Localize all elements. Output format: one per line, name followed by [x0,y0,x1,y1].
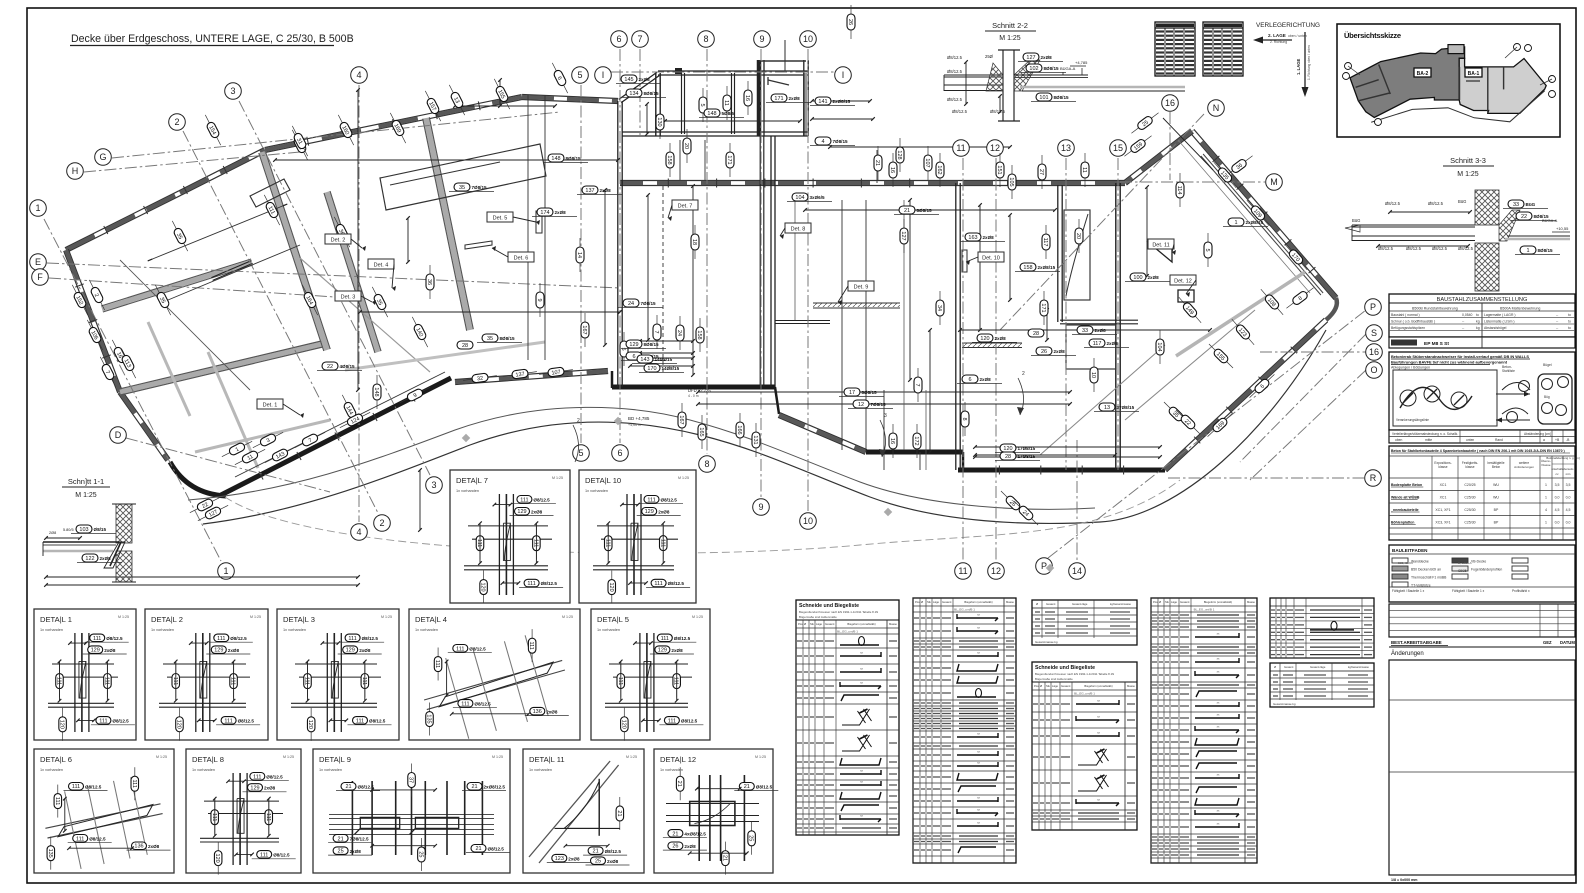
svg-text:Det. 9: Det. 9 [854,285,869,291]
svg-text:129: 129 [346,648,355,654]
svg-text:11: 11 [1081,167,1087,173]
svg-text:2Ø8: 2Ø8 [49,531,56,535]
svg-text:BL_EG_unt/B 1: BL_EG_unt/B 1 [837,630,858,634]
svg-text:M 1:25: M 1:25 [755,755,766,759]
svg-text:114: 114 [1176,186,1182,195]
svg-text:Biegerollendurchmesser nach EN: Biegerollendurchmesser nach EN 1992-1-1/… [799,610,878,614]
svg-text:+4,00 m: +4,00 m [628,423,641,427]
svg-text:G: G [99,152,106,162]
svg-text:M 1:25: M 1:25 [692,615,703,619]
svg-text:137: 137 [585,188,594,194]
svg-text:111: 111 [103,677,109,685]
svg-text:111: 111 [131,780,137,788]
svg-text:Ø8/12.5: Ø8/12.5 [469,647,486,652]
svg-text:Det. 12: Det. 12 [1174,279,1192,285]
svg-text:111: 111 [93,636,101,642]
svg-text:Bauführungen BAVFE tief nicht: Bauführungen BAVFE tief nicht zus wähnen… [1391,360,1508,365]
svg-text:148: 148 [551,156,560,162]
svg-text:34: 34 [936,305,942,311]
svg-text:2xØ8/15: 2xØ8/15 [833,99,851,104]
svg-text:1: 1 [35,203,40,213]
svg-text:2xØ8: 2xØ8 [555,210,567,215]
svg-text:111: 111 [647,497,655,503]
svg-text:134: 134 [629,91,638,97]
svg-text:20: 20 [1075,233,1081,239]
svg-text:2xØ8: 2xØ8 [684,844,696,849]
grid circles [611,31,628,48]
svg-text:BÜGA-A: BÜGA-A [1542,218,1558,223]
svg-text:I: I [602,70,605,80]
svg-text:9: 9 [759,34,764,44]
svg-text:VB-Decke: VB-Decke [1471,560,1486,564]
svg-text:S: S [1371,328,1377,338]
svg-text:9: 9 [758,502,763,512]
svg-text:Ø8/12.5: Ø8/12.5 [1432,246,1448,251]
svg-text:min: min [1566,472,1571,476]
svg-text:2: 2 [174,117,179,127]
annotation pills [86,278,109,312]
svg-text:7Ø8/15: 7Ø8/15 [641,301,657,306]
svg-text:Rand: Rand [1495,438,1503,442]
floor plan exterior walls [67,195,181,252]
svg-text:2xØ8: 2xØ8 [1107,341,1119,346]
svg-text:BüG: BüG [1352,218,1360,223]
bar schedule tables [796,600,899,835]
svg-text:14: 14 [576,252,582,258]
svg-text:I: I [842,70,845,80]
svg-text:5.80/5: 5.80/5 [63,528,74,532]
svg-text:28: 28 [1033,331,1039,337]
svg-text:Gesamt: Gesamt [1046,602,1056,606]
svg-text:14: 14 [1072,566,1082,576]
svg-text:BEST.ARBEITSABGABE: BEST.ARBEITSABGABE [1391,640,1442,645]
svg-text:Ø8/12.5: Ø8/12.5 [89,837,106,842]
svg-text:1x vorhanden: 1x vorhanden [660,768,683,772]
svg-text:Stahlliste: Stahlliste [1502,369,1515,373]
svg-text:Masse: Masse [1247,600,1255,604]
svg-text:M 1:25: M 1:25 [492,755,503,759]
svg-text:8Ø8/15: 8Ø8/15 [644,91,660,96]
svg-text:12: 12 [990,143,1000,153]
svg-text:Gesamt-läge: Gesamt-läge [1072,602,1088,606]
svg-text:M: M [1270,177,1278,187]
svg-text:14Ø8/15: 14Ø8/15 [655,357,673,362]
svg-text:Bodenplatte Beton: Bodenplatte Beton [1391,483,1422,487]
svg-text:162: 162 [936,165,942,174]
svg-text:Gesamtmasse kg: Gesamtmasse kg [1035,640,1058,644]
svg-text:Ø: Ø [921,600,923,604]
svg-text:21: 21 [471,784,477,790]
svg-text:37Ø8/15: 37Ø8/15 [1117,405,1135,410]
svg-text:129: 129 [250,785,259,791]
svg-text:171: 171 [774,96,783,102]
svg-text:mitte: mitte [1425,438,1432,442]
svg-text:Wanddecke: Wanddecke [1411,560,1429,564]
svg-text:130: 130 [656,117,662,126]
bottom slab edge curves [203,330,1326,524]
svg-text:Gesamt: Gesamt [1061,684,1071,688]
svg-text:4 - 0 m: 4 - 0 m [688,394,699,398]
svg-text:1x vorhanden: 1x vorhanden [151,628,174,632]
svg-text:141: 141 [818,99,827,105]
svg-text:Ø8/12.5: Ø8/12.5 [605,849,622,854]
svg-text:DETA|L 2: DETA|L 2 [151,615,183,624]
svg-text:111: 111 [668,718,676,724]
svg-text:Schneide und Biegeliste: Schneide und Biegeliste [799,603,859,609]
svg-text:Det. 5: Det. 5 [493,216,508,222]
svg-text:21: 21 [616,810,622,816]
svg-text:10: 10 [803,34,813,44]
svg-text:Böhlenplatten: Böhlenplatten [1391,521,1414,525]
svg-text:135: 135 [426,714,432,723]
svg-text:2xØ8: 2xØ8 [980,377,992,382]
svg-text:7: 7 [914,383,920,386]
svg-text:Ø8/12.5: Ø8/12.5 [1406,246,1422,251]
svg-text:Ø8/12.5: Ø8/12.5 [1458,246,1474,251]
svg-text:17: 17 [849,390,855,396]
svg-text:oberseits: oberseits [1563,467,1575,471]
svg-text:Läge: Läge [1171,600,1177,604]
title block: small dim table [1389,430,1575,443]
svg-text:8Ø8/15: 8Ø8/15 [566,156,582,161]
svg-text:21: 21 [874,160,880,166]
svg-text:111: 111 [659,539,665,547]
svg-text:Pos: Pos [798,622,803,626]
svg-text:7Ø8/12.5: 7Ø8/12.5 [350,837,369,842]
svg-text:0,0: 0,0 [1566,521,1571,525]
svg-text:120: 120 [175,720,181,729]
svg-text:VERLEGERICHTUNG: VERLEGERICHTUNG [1256,22,1320,29]
svg-text:167: 167 [678,415,684,424]
svg-text:171: 171 [726,155,732,164]
svg-text:111: 111 [604,539,610,547]
svg-text:33: 33 [1513,202,1519,208]
svg-text:Ø8/12.5: Ø8/12.5 [238,719,255,724]
svg-text:6: 6 [632,354,635,360]
svg-text:1: 1 [1234,220,1237,226]
svg-text:2xØ8: 2xØ8 [607,859,619,864]
svg-text:Ø8/12.5: Ø8/12.5 [112,719,129,724]
svg-text:XC3, XF1: XC3, XF1 [1435,521,1450,525]
svg-text:36: 36 [426,279,432,285]
svg-text:5Ø8/5: 5Ø8/5 [722,111,735,116]
svg-text:8: 8 [703,34,708,44]
svg-text:172: 172 [913,436,919,445]
svg-text:DETA|L 9: DETA|L 9 [319,755,351,764]
svg-text:1x vorhanden: 1x vorhanden [585,489,608,493]
svg-text:37: 37 [408,777,414,783]
svg-text:5: 5 [699,103,705,106]
svg-text:B50 Decken BOI an: B50 Decken BOI an [1411,568,1441,572]
svg-text:Decke über Erdgeschoss, UNTERE: Decke über Erdgeschoss, UNTERE LAGE, C 2… [71,33,354,45]
svg-text:Pos: Pos [915,600,920,604]
title block: tall empty panel [1389,660,1575,875]
det5 det6 pieces [536,211,542,233]
svg-text:Ø8/12.5: Ø8/12.5 [947,97,963,102]
svg-text:DETA|L 7: DETA|L 7 [456,476,488,485]
svg-text:2xØ8/12.5: 2xØ8/12.5 [484,784,506,789]
svg-text:Ø8/12.5: Ø8/12.5 [362,636,379,641]
svg-text:127: 127 [900,231,906,240]
svg-text:1x vorhanden: 1x vorhanden [319,768,342,772]
svg-text:2xØ8: 2xØ8 [546,709,558,714]
svg-text:2xØ8: 2xØ8 [658,509,670,514]
svg-text:2xØ8: 2xØ8 [1041,55,1053,60]
svg-text:C8/25: C8/25 [1458,569,1467,573]
svg-text:DETA|L 12: DETA|L 12 [660,755,696,764]
svg-text:111: 111 [527,581,535,587]
svg-text:111: 111 [434,660,440,668]
svg-text:120: 120 [620,720,626,729]
svg-text:163: 163 [968,235,977,241]
svg-text:1x vorhanden: 1x vorhanden [456,489,479,493]
svg-text:Gesamt: Gesamt [1284,665,1294,669]
svg-text:122: 122 [85,556,94,562]
svg-text:DETA|L 4: DETA|L 4 [415,615,447,624]
svg-text:1: 1 [223,566,228,576]
svg-text:M 1:25: M 1:25 [1457,171,1479,178]
svg-text:Läge: Läge [816,622,822,626]
title block: baustahl table [1389,294,1575,337]
svg-text:4xØ8/12.5: 4xØ8/12.5 [684,832,706,837]
svg-text:170: 170 [647,366,656,372]
svg-text:111: 111 [532,539,538,547]
svg-text:25: 25 [748,835,754,841]
svg-text:148: 148 [707,111,716,117]
svg-text:Ø8/12.5: Ø8/12.5 [533,498,550,503]
svg-text:DETA|L 6: DETA|L 6 [40,755,72,764]
svg-text:2xØ8: 2xØ8 [228,648,240,653]
svg-text:8Ø8/15: 8Ø8/15 [1054,95,1070,100]
svg-text:C20/25: C20/25 [1464,483,1475,487]
svg-text:C25/30: C25/30 [1464,521,1475,525]
svg-text:2: 2 [577,418,580,424]
svg-text:BA-1: BA-1 [1468,71,1480,77]
svg-text:Ø8/12.5: Ø8/12.5 [668,581,685,586]
svg-text:WU: WU [1493,483,1499,487]
svg-text:Profilstärkt x: Profilstärkt x [1512,589,1530,593]
svg-text:27: 27 [1038,169,1044,175]
svg-text:4Ø8/15: 4Ø8/15 [340,364,356,369]
svg-text:Gesamtmasse kg: Gesamtmasse kg [1273,702,1296,706]
svg-text:Det. 6: Det. 6 [514,256,529,262]
svg-text:2xØ8: 2xØ8 [1095,328,1107,333]
svg-text:XC1: XC1 [1440,496,1447,500]
svg-text:3,5: 3,5 [1555,483,1560,487]
svg-text:Schneide und Biegeliste: Schneide und Biegeliste [1035,665,1095,671]
svg-text:Det. 8: Det. 8 [791,227,806,233]
svg-text:--: -- [1462,326,1464,330]
svg-text:16: 16 [744,95,750,101]
svg-text:Ø8/12.5: Ø8/12.5 [85,784,102,789]
svg-text:Ø: Ø [1036,602,1038,606]
svg-text:5: 5 [577,70,582,80]
svg-text:2xØ8/15: 2xØ8/15 [1038,265,1056,270]
svg-text:BL_EG_unt/B 1: BL_EG_unt/B 1 [1194,608,1215,612]
svg-text:107: 107 [924,158,930,167]
svg-text:5: 5 [1204,248,1210,251]
tall middle block [617,101,619,387]
svg-text:2. LAGE: 2. LAGE [1268,33,1286,38]
svg-text:10: 10 [803,516,813,526]
svg-text:Ø8/12.5: Ø8/12.5 [1428,201,1444,206]
svg-text:101: 101 [1039,95,1048,101]
svg-text:B500B Rundstahlbewehrung: B500B Rundstahlbewehrung [1412,307,1458,311]
svg-text:Listenmatte ( LISm ): Listenmatte ( LISm ) [1484,320,1515,324]
svg-text:+B: +B [1555,438,1560,442]
svg-text:111: 111 [456,646,464,652]
svg-text:C25/30: C25/30 [1464,496,1475,500]
svg-text:111: 111 [260,852,268,858]
svg-text:105: 105 [1008,177,1014,186]
svg-text:3: 3 [884,413,887,419]
svg-text:XC1: XC1 [1440,483,1447,487]
svg-text:Büg: Büg [1544,395,1550,399]
svg-text:Ø: Ø [804,622,806,626]
svg-text:DETA|L 10: DETA|L 10 [585,476,621,485]
svg-text:Gesamt: Gesamt [942,600,952,604]
svg-text:_nnenbaubeteile: _nnenbaubeteile [1390,508,1419,512]
svg-text:21: 21 [904,208,910,214]
svg-text:M 1:25: M 1:25 [999,35,1021,42]
svg-text:158: 158 [696,330,702,339]
svg-text:BÜGA-A: BÜGA-A [1060,66,1076,71]
svg-text:4: 4 [1545,508,1547,512]
svg-text:kg/Gesamtmasse: kg/Gesamtmasse [1348,665,1369,669]
svg-text:Wände alt WÜBB: Wände alt WÜBB [1391,496,1420,500]
svg-text:24: 24 [676,330,682,336]
svg-text:B500A Mattenbewehrung: B500A Mattenbewehrung [1500,307,1540,311]
svg-text:111: 111 [356,718,364,724]
svg-text:Ø8/12.5: Ø8/12.5 [661,498,678,503]
svg-text:123: 123 [555,856,564,862]
svg-text:F: F [37,272,43,282]
svg-text:1x vorhanden: 1x vorhanden [40,628,63,632]
svg-text:1x vorhanden: 1x vorhanden [192,768,215,772]
svg-text:Ø8/12.5: Ø8/12.5 [358,784,375,789]
svg-text:13: 13 [1104,405,1110,411]
interior walls middle-right [955,183,957,470]
svg-text:Ø: Ø [1159,600,1161,604]
svg-text:Biegeform (unmaßstäb): Biegeform (unmaßstäb) [1204,600,1232,604]
svg-text:2xØ8: 2xØ8 [359,648,371,653]
svg-text:16: 16 [1369,347,1379,357]
svg-text:135: 135 [47,849,53,858]
svg-text:M 1:25: M 1:25 [381,615,392,619]
svg-text:Abständerung [cm]: Abständerung [cm] [1524,432,1551,436]
svg-text:120: 120 [980,336,989,342]
svg-text:111: 111 [172,677,178,685]
svg-text:Ø8/12.5: Ø8/12.5 [273,853,290,858]
svg-text:Det. 4: Det. 4 [374,263,389,269]
svg-text:Verankerungslängslinie: Verankerungslängslinie [1396,418,1429,422]
svg-text:143: 143 [640,357,649,363]
svg-text:BL_EG_unt/B 1: BL_EG_unt/B 1 [1074,692,1095,696]
svg-text:148: 148 [373,387,379,396]
svg-text:14Ø8/15: 14Ø8/15 [662,366,680,371]
svg-text:Det. 7: Det. 7 [678,204,693,210]
svg-text:3: 3 [431,480,436,490]
svg-text:104: 104 [795,195,804,201]
svg-text:Beton für Stahlbetonbauteile 4: Beton für Stahlbetonbauteile 4 Spannbeto… [1391,449,1565,453]
svg-text:Ø8/12.5: Ø8/12.5 [1378,246,1394,251]
svg-text:8Ø8/15: 8Ø8/15 [500,336,516,341]
svg-text:2: 2 [379,518,384,528]
svg-text:17Ø8/15: 17Ø8/15 [1018,446,1036,451]
svg-text:7Ø8/15: 7Ø8/15 [472,185,488,190]
svg-text:151: 151 [996,165,1002,174]
svg-text:Pos: Pos [1034,684,1039,688]
title block: EP row [1389,337,1575,348]
svg-text:17Ø8/15: 17Ø8/15 [1018,454,1036,459]
svg-text:kg: kg [1476,320,1480,324]
svg-text:Schn]tt 1-1: Schn]tt 1-1 [68,477,104,486]
svg-text:--: -- [1556,326,1558,330]
svg-text:111: 111 [461,701,469,707]
svg-text:Det. 3: Det. 3 [341,295,356,301]
svg-text:21: 21 [672,831,678,837]
svg-text:20: 20 [683,143,689,149]
svg-text:111: 111 [230,677,236,685]
det labels [257,399,283,409]
svg-text:129: 129 [91,648,100,654]
svg-text:6: 6 [617,448,622,458]
svg-text:120: 120 [59,720,65,729]
svg-text:Masse: Masse [889,622,897,626]
svg-text:120: 120 [1003,446,1012,452]
svg-text:unterhalb: unterhalb [1551,467,1563,471]
svg-text:2xØ8: 2xØ8 [531,509,543,514]
svg-text:Anforderungen: Anforderungen [1514,465,1534,469]
svg-text:Ø8/12.5: Ø8/12.5 [756,784,773,789]
svg-text:M 1:25: M 1:25 [678,476,689,480]
svg-text:E: E [35,257,41,267]
svg-text:Bügermaße sind Außenmaße: Bügermaße sind Außenmaße [799,615,837,619]
svg-text:BA-2: BA-2 [1417,71,1429,77]
svg-text:Det. 10: Det. 10 [982,256,1000,262]
svg-text:12: 12 [858,402,864,408]
svg-text:111: 111 [348,636,356,642]
svg-text:2xØ8/15: 2xØ8/15 [1246,220,1264,225]
svg-text:1: 1 [1526,248,1529,254]
svg-text:--: -- [1556,320,1558,324]
svg-text:129: 129 [658,648,667,654]
svg-text:25: 25 [595,859,601,865]
svg-text:to: to [1568,326,1571,330]
svg-text:Ø: Ø [1274,665,1276,669]
svg-text:DATUM: DATUM [1560,640,1575,645]
svg-text:Ø8/12.5: Ø8/12.5 [106,636,123,641]
grid axes [44,219,221,561]
svg-text:7: 7 [637,34,642,44]
svg-text:1x vorhanden: 1x vorhanden [283,628,306,632]
svg-text:3,5: 3,5 [1566,483,1571,487]
svg-text:Ø8/15: Ø8/15 [94,527,107,532]
svg-text:M 1:25: M 1:25 [626,755,637,759]
svg-text:Masse: Masse [1127,684,1135,688]
svg-text:Masse: Masse [1006,600,1014,604]
svg-text:4,5: 4,5 [1555,508,1560,512]
svg-text:GEZ: GEZ [1543,640,1552,645]
svg-text:Bügermaße sind Außenmaße: Bügermaße sind Außenmaße [1035,677,1073,681]
svg-text:O: O [1370,365,1377,375]
svg-text:R: R [1370,473,1377,483]
interior walls left wing [102,262,252,309]
svg-text:Ø8/12.5: Ø8/12.5 [230,636,247,641]
svg-text:oben: oben [1395,438,1403,442]
svg-text:21: 21 [345,784,351,790]
svg-text:Klasse: Klasse [1541,463,1550,467]
